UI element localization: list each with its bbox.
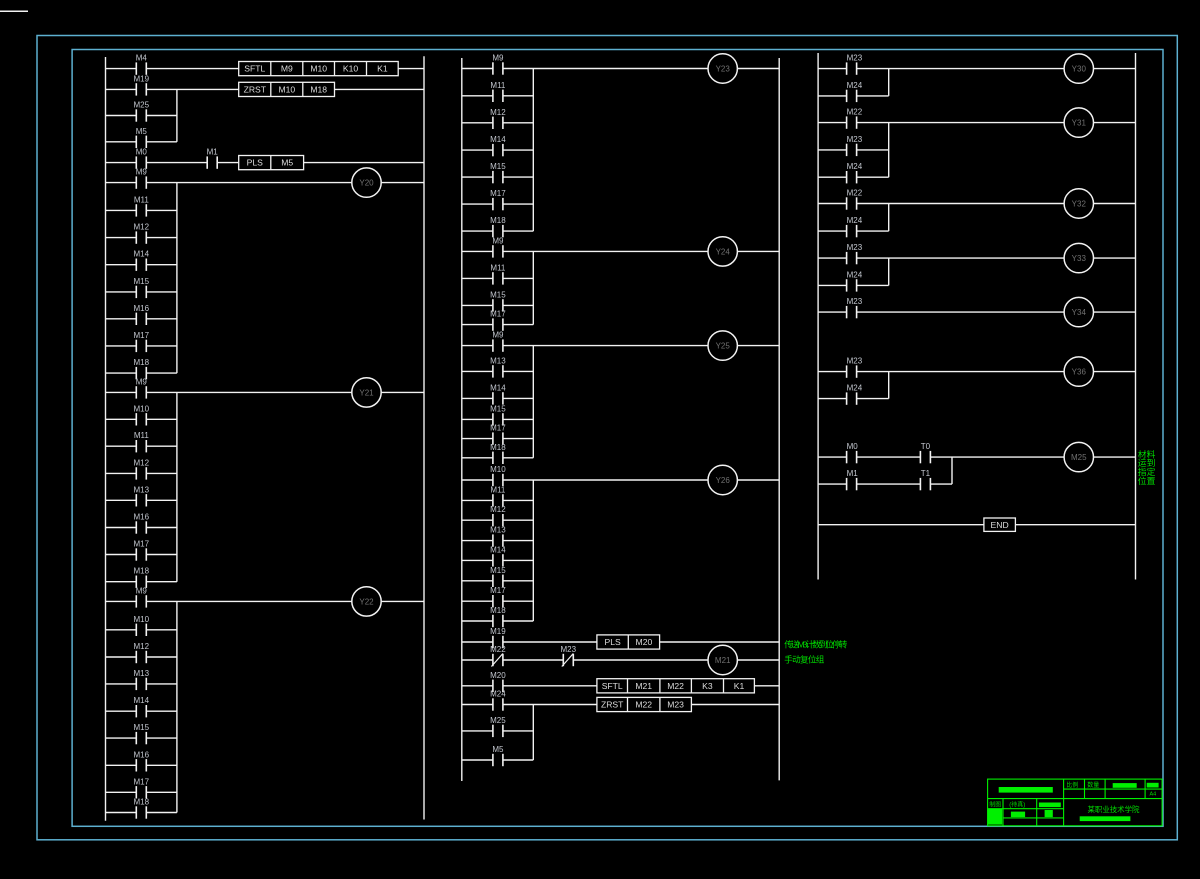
wire rung segment — [106, 445, 137, 447]
wire rung segment — [503, 659, 563, 661]
svg-text:M20: M20 — [636, 637, 653, 647]
wire rung segment — [857, 257, 1065, 259]
contact M11 — [490, 485, 506, 506]
wire rung segment — [106, 115, 137, 117]
wire rung segment — [146, 291, 177, 293]
wire rung segment — [217, 162, 239, 164]
svg-text:M21: M21 — [635, 681, 652, 691]
wire rung segment — [462, 438, 493, 440]
wire or-branch vertical — [888, 69, 890, 96]
svg-text:M1: M1 — [847, 469, 859, 478]
wire rung segment — [818, 483, 847, 485]
wire rung segment — [1094, 311, 1136, 313]
title block filled bar (small) — [1045, 810, 1053, 817]
contact M16 — [134, 750, 150, 771]
contact M25 — [490, 716, 506, 737]
svg-text:M14: M14 — [134, 250, 150, 259]
wire rung segment — [146, 710, 177, 712]
wire rung segment — [462, 324, 493, 326]
svg-text:M0: M0 — [136, 148, 148, 157]
wire rung segment — [462, 418, 493, 420]
svg-text:M23: M23 — [847, 297, 863, 306]
wire rung segment — [857, 311, 1065, 313]
svg-text:M5: M5 — [492, 745, 504, 754]
svg-text:M5: M5 — [281, 158, 293, 168]
contact M17 — [490, 189, 506, 210]
wire rung segment — [106, 264, 137, 266]
wire rung segment — [818, 456, 847, 458]
contact M23 — [847, 357, 863, 378]
svg-text:制图: 制图 — [989, 800, 1001, 808]
contact M24 — [847, 216, 863, 237]
svg-text:M24: M24 — [847, 270, 863, 279]
contact M11 — [490, 263, 506, 284]
wire rung segment — [818, 122, 847, 124]
wire rung segment — [146, 264, 177, 266]
wire rung segment — [818, 257, 847, 259]
wire rung segment — [857, 68, 1065, 70]
wire rung segment — [1094, 257, 1136, 259]
contact M10 — [134, 615, 150, 636]
wire or-branch vertical — [176, 183, 178, 374]
contact M19 — [490, 627, 506, 648]
wire right power rail (ladder page 1) — [423, 56, 425, 819]
wire rung segment — [503, 122, 533, 124]
wire rung segment — [503, 519, 533, 521]
wire or-branch vertical — [888, 204, 890, 232]
svg-text:M15: M15 — [134, 723, 150, 732]
wire rung segment — [462, 397, 493, 399]
svg-text:A4: A4 — [1150, 791, 1157, 797]
wire rung segment — [146, 182, 351, 184]
wire rung segment — [462, 659, 493, 661]
coil Y21 — [352, 378, 381, 407]
wire rung segment — [106, 527, 137, 529]
svg-text:手动复位组: 手动复位组 — [784, 654, 824, 665]
title block filled block (bottom-left) — [988, 809, 1003, 825]
wire rung segment — [857, 149, 889, 151]
svg-text:M23: M23 — [847, 243, 863, 252]
svg-text:比例: 比例 — [1066, 781, 1078, 789]
wire rung segment — [106, 68, 137, 70]
wire rung segment — [146, 115, 177, 117]
wire rung segment — [930, 483, 952, 485]
wire rung segment — [462, 540, 493, 542]
svg-text:K1: K1 — [734, 681, 745, 691]
wire rung segment — [818, 230, 847, 232]
function block SFTL M9 M10 K10 K1 — [239, 62, 399, 76]
wire END rung segment — [1015, 524, 1135, 526]
wire rung segment — [381, 391, 424, 393]
wire rung segment — [462, 559, 493, 561]
contact M0 — [136, 148, 148, 169]
wire or-branch vertical — [888, 123, 890, 178]
wire rung segment — [1094, 203, 1136, 205]
contact M17 — [134, 540, 150, 561]
wire rung segment — [146, 445, 177, 447]
svg-text:M18: M18 — [134, 358, 150, 367]
wire rung segment — [398, 68, 424, 70]
wire rung segment — [737, 659, 779, 661]
wire rung segment — [146, 472, 177, 474]
contact M9 — [136, 168, 148, 189]
contact M23 (NC) — [561, 645, 577, 667]
svg-text:M16: M16 — [134, 750, 150, 759]
wire rung segment — [857, 456, 921, 458]
wire rung segment — [462, 600, 493, 602]
contact M9 — [492, 54, 504, 75]
contact M9 — [136, 377, 148, 398]
svg-text:M12: M12 — [134, 223, 150, 232]
wire rung segment — [381, 600, 424, 602]
contact M18 — [134, 358, 150, 379]
function block END — [984, 518, 1016, 531]
wire rung segment — [462, 519, 493, 521]
contact M12 — [134, 642, 150, 663]
svg-text:Y20: Y20 — [359, 179, 374, 188]
svg-text:M19: M19 — [134, 74, 150, 83]
svg-text:M15: M15 — [490, 404, 506, 413]
wire rung segment — [503, 540, 533, 542]
svg-text:M24: M24 — [847, 384, 863, 393]
wire rung segment — [691, 704, 779, 706]
wire rung segment — [462, 250, 493, 252]
wire rung segment — [106, 683, 137, 685]
svg-text:M11: M11 — [134, 431, 150, 440]
svg-text:Y31: Y31 — [1072, 119, 1087, 128]
wire rung segment — [503, 250, 708, 252]
wire rung segment — [462, 620, 493, 622]
wire rung segment — [660, 641, 780, 643]
wire rung segment — [503, 559, 533, 561]
svg-text:M11: M11 — [490, 81, 506, 90]
contact M23 — [847, 243, 863, 264]
contact M22 — [847, 189, 863, 210]
svg-text:M24: M24 — [847, 216, 863, 225]
wire rung segment — [857, 203, 1065, 205]
wire rung segment — [573, 659, 708, 661]
svg-text:M12: M12 — [490, 505, 506, 514]
wire rung segment — [1094, 456, 1136, 458]
wire rung segment — [146, 237, 177, 239]
svg-text:M11: M11 — [134, 195, 150, 204]
contact M9 — [492, 331, 504, 352]
wire rung segment — [503, 457, 533, 459]
svg-text:M18: M18 — [134, 567, 150, 576]
wire rung segment — [818, 203, 847, 205]
contact M15 — [134, 723, 150, 744]
wire rung segment — [146, 737, 177, 739]
svg-text:M18: M18 — [310, 85, 327, 95]
wire rung segment — [146, 600, 351, 602]
contact T1 — [920, 469, 930, 490]
wire rung segment — [857, 230, 889, 232]
wire rung segment — [106, 737, 137, 739]
coil Y34 — [1064, 297, 1093, 326]
wire rung segment — [818, 176, 847, 178]
wire rung segment — [146, 499, 177, 501]
svg-text:Y24: Y24 — [716, 247, 731, 256]
wire rung segment — [737, 250, 779, 252]
contact M5 — [136, 127, 148, 148]
wire rung segment — [106, 499, 137, 501]
wire rung segment — [462, 580, 493, 582]
wire rung segment — [106, 141, 137, 143]
svg-text:M14: M14 — [134, 696, 150, 705]
svg-text:Y21: Y21 — [359, 388, 374, 397]
svg-text:K10: K10 — [343, 64, 359, 74]
wire rung segment — [503, 304, 533, 306]
wire rung segment — [818, 149, 847, 151]
wire rung segment — [818, 68, 847, 70]
svg-text:M23: M23 — [847, 357, 863, 366]
contact M22 — [490, 645, 506, 667]
svg-text:SFTL: SFTL — [244, 64, 265, 74]
svg-text:(待真): (待真) — [1009, 800, 1025, 808]
svg-text:M17: M17 — [134, 540, 150, 549]
wire rung segment — [462, 122, 493, 124]
wire rung segment — [106, 554, 137, 556]
wire rung segment — [503, 499, 533, 501]
contact M14 — [490, 135, 506, 156]
contact M19 — [134, 74, 150, 95]
function block PLS M5 — [239, 156, 304, 170]
coil Y25 — [708, 331, 737, 360]
function block PLS M20 — [597, 635, 660, 649]
wire rung segment — [462, 370, 493, 372]
wire rung segment — [462, 345, 493, 347]
wire rung segment — [930, 456, 1064, 458]
contact M4 — [136, 54, 148, 75]
contact M9 — [136, 586, 148, 607]
wire rung segment — [462, 685, 493, 687]
wire rung segment — [462, 230, 493, 232]
contact M16 — [134, 513, 150, 534]
wire rung segment — [106, 88, 137, 90]
contact M18 — [490, 216, 506, 237]
wire rung segment — [462, 176, 493, 178]
svg-text:M11: M11 — [490, 485, 506, 494]
function block ZRST M10 M18 — [239, 82, 335, 96]
wire rung segment — [857, 95, 889, 97]
wire rung segment — [106, 581, 137, 583]
wire rung segment — [106, 237, 137, 239]
wire rung segment — [106, 162, 137, 164]
svg-text:M18: M18 — [134, 798, 150, 807]
svg-text:Y22: Y22 — [359, 597, 374, 606]
svg-text:M9: M9 — [136, 168, 148, 177]
svg-text:ZRST: ZRST — [601, 700, 624, 710]
contact M11 — [134, 195, 150, 216]
coil Y20 — [352, 168, 381, 197]
coil Y31 — [1064, 108, 1093, 137]
contact M11 — [134, 431, 150, 452]
svg-text:M11: M11 — [490, 263, 506, 272]
wire rung segment — [106, 629, 137, 631]
svg-text:Y36: Y36 — [1072, 368, 1087, 377]
svg-text:M24: M24 — [847, 81, 863, 90]
wire rung segment — [146, 209, 177, 211]
svg-text:M9: M9 — [136, 586, 148, 595]
svg-text:M25: M25 — [134, 101, 150, 110]
wire rung segment — [146, 391, 351, 393]
svg-text:END: END — [991, 520, 1009, 530]
wire rung segment — [106, 391, 137, 393]
svg-text:M17: M17 — [490, 189, 506, 198]
contact M24 — [847, 384, 863, 405]
svg-text:M16: M16 — [134, 304, 150, 313]
contact M10 — [134, 404, 150, 425]
svg-text:ZRST: ZRST — [244, 85, 267, 95]
wire or-branch vertical — [176, 89, 178, 141]
contact M23 — [847, 297, 863, 318]
wire rung segment — [818, 284, 847, 286]
contact M12 — [134, 223, 150, 244]
wire rung segment — [106, 656, 137, 658]
contact M12 — [134, 458, 150, 479]
contact M17 — [134, 777, 150, 798]
contact M10 — [490, 465, 506, 486]
svg-text:M14: M14 — [490, 383, 506, 392]
svg-text:M17: M17 — [490, 424, 506, 433]
title block filled bar (check cell) — [1039, 803, 1061, 808]
wire rung segment — [462, 304, 493, 306]
wire rung segment — [1094, 122, 1136, 124]
contact M22 — [847, 108, 863, 129]
svg-text:M12: M12 — [490, 108, 506, 117]
wire rung segment — [106, 418, 137, 420]
wire rung segment — [857, 122, 1065, 124]
svg-text:M13: M13 — [490, 356, 506, 365]
wire or-branch vertical — [532, 705, 534, 761]
svg-text:M0: M0 — [847, 442, 859, 451]
wire right power rail (ladder page 3) — [1135, 53, 1137, 580]
wire rung segment — [106, 291, 137, 293]
svg-text:M21: M21 — [715, 656, 731, 665]
wire rung segment — [503, 685, 597, 687]
contact M13 — [490, 356, 506, 377]
wire rung segment — [503, 230, 533, 232]
svg-text:M9: M9 — [492, 236, 504, 245]
svg-text:T1: T1 — [921, 469, 931, 478]
svg-text:M10: M10 — [134, 615, 150, 624]
svg-text:M17: M17 — [134, 331, 150, 340]
coil Y36 — [1064, 357, 1093, 386]
contact M1 — [847, 469, 859, 490]
contact M9 — [492, 236, 504, 257]
wire or-branch vertical — [532, 346, 534, 458]
wire right power rail (ladder page 2) — [778, 58, 780, 780]
wire rung segment — [146, 764, 177, 766]
wire rung segment — [146, 372, 177, 374]
contact M24 — [847, 162, 863, 183]
wire rung segment — [462, 479, 493, 481]
coil Y26 — [708, 465, 737, 494]
svg-text:M22: M22 — [667, 681, 684, 691]
wire rung segment — [503, 324, 533, 326]
svg-text:M17: M17 — [490, 310, 506, 319]
coil M25 — [1064, 442, 1093, 471]
svg-text:M23: M23 — [667, 700, 684, 710]
title block filled bar (scale cell) — [1113, 783, 1137, 788]
svg-text:M14: M14 — [490, 545, 506, 554]
svg-text:SFTL: SFTL — [602, 681, 623, 691]
svg-text:M9: M9 — [136, 377, 148, 386]
wire rung segment — [503, 600, 533, 602]
wire rung segment — [462, 499, 493, 501]
contact M13 — [134, 669, 150, 690]
svg-text:数量: 数量 — [1087, 781, 1099, 789]
wire or-branch vertical — [176, 392, 178, 581]
wire END rung segment — [818, 524, 984, 526]
wire or-branch vertical — [888, 372, 890, 399]
wire rung segment — [462, 203, 493, 205]
wire left power rail (ladder page 2) — [461, 58, 463, 781]
svg-text:Y25: Y25 — [716, 342, 731, 351]
svg-text:M25: M25 — [490, 716, 506, 725]
wire rung segment — [106, 209, 137, 211]
contact M12 — [490, 505, 506, 526]
contact M20 — [490, 671, 506, 692]
wire rung segment — [857, 483, 921, 485]
svg-text:M5: M5 — [136, 127, 148, 136]
wire rung segment — [818, 95, 847, 97]
wire rung segment — [462, 457, 493, 459]
svg-text:M13: M13 — [490, 526, 506, 535]
wire rung segment — [818, 371, 847, 373]
svg-text:K3: K3 — [702, 681, 713, 691]
contact M14 — [490, 383, 506, 404]
contact M15 — [490, 566, 506, 587]
contact M18 — [490, 443, 506, 464]
wire rung segment — [503, 759, 533, 761]
coil Y33 — [1064, 243, 1093, 272]
wire rung segment — [146, 581, 177, 583]
wire rung segment — [462, 704, 493, 706]
coil M21 — [708, 645, 737, 674]
wire rung segment — [146, 554, 177, 556]
wire rung segment — [818, 311, 847, 313]
svg-text:M19: M19 — [490, 627, 506, 636]
wire rung segment — [1094, 68, 1136, 70]
svg-text:Y34: Y34 — [1072, 308, 1087, 317]
svg-text:M22: M22 — [635, 700, 652, 710]
contact M16 — [134, 304, 150, 325]
title block redacted name bar — [999, 787, 1053, 793]
contact M5 — [492, 745, 504, 766]
wire rung segment — [503, 438, 533, 440]
svg-text:M24: M24 — [490, 690, 506, 699]
svg-text:M18: M18 — [490, 216, 506, 225]
contact M14 — [490, 545, 506, 566]
contact M15 — [134, 277, 150, 298]
svg-text:M18: M18 — [490, 606, 506, 615]
wire left power rail (ladder page 1) — [105, 57, 107, 821]
svg-text:M13: M13 — [134, 485, 150, 494]
svg-text:M18: M18 — [490, 443, 506, 452]
coil Y23 — [708, 54, 737, 83]
svg-text:M17: M17 — [490, 586, 506, 595]
wire rung segment — [381, 182, 424, 184]
wire rung segment — [146, 418, 177, 420]
svg-text:M24: M24 — [847, 162, 863, 171]
wire rung segment — [146, 629, 177, 631]
wire rung segment — [106, 812, 137, 814]
coil Y30 — [1064, 54, 1093, 83]
svg-text:M16: M16 — [134, 513, 150, 522]
wire rung segment — [106, 472, 137, 474]
wire rung segment — [503, 397, 533, 399]
